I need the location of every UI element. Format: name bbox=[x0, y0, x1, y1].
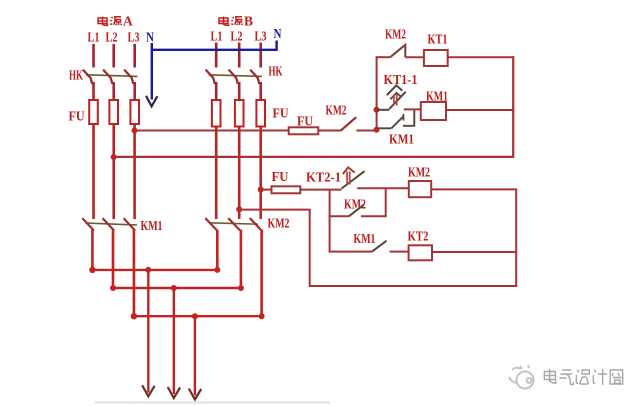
wire phase A L1 down bbox=[92, 124, 95, 219]
contact KT1-1 (delayed) blade bbox=[389, 92, 405, 109]
svg-text:HK: HK bbox=[69, 68, 83, 83]
node junction on B L2 (return feed) bbox=[236, 206, 242, 212]
node junction on A L3 (row1 feed) bbox=[132, 128, 138, 134]
wire right bus (KT1/KM1 branch) bbox=[512, 56, 514, 158]
wire left branch vertical x329 bbox=[329, 190, 331, 252]
wire after fuse row2 bbox=[300, 189, 341, 191]
contact KM1 NC blade bbox=[391, 117, 403, 129]
svg-text:L3: L3 bbox=[255, 30, 267, 45]
wire phase L3 B top bbox=[259, 43, 262, 68]
wire phase L2 B top bbox=[238, 43, 241, 68]
svg-text:KM1: KM1 bbox=[141, 218, 163, 233]
svg-text:KM2: KM2 bbox=[408, 165, 430, 180]
wire KT2 row mid bbox=[390, 251, 409, 253]
wire KT1 row right bbox=[448, 56, 515, 58]
contactor KM1 linkage bbox=[86, 223, 138, 225]
node junction on A L2 (return line) bbox=[111, 154, 117, 160]
switch HK B pole 1 blade bbox=[206, 70, 215, 84]
wire output 2 down bbox=[173, 288, 175, 394]
wire phase A L2 down bbox=[112, 124, 115, 219]
coil KM2 bbox=[409, 181, 431, 197]
svg-text:KT2-1: KT2-1 bbox=[306, 169, 341, 184]
fuse FU control row1 (horizontal) bbox=[289, 127, 319, 134]
contact KM1 NC stop tick bbox=[402, 114, 404, 121]
wire control row1 feed bbox=[135, 130, 289, 132]
switch HK B stubs to fuses bbox=[216, 82, 261, 101]
bottom faint line bbox=[95, 401, 330, 403]
wire KT2 row right bbox=[432, 251, 517, 253]
wire KT2 row feed bbox=[261, 189, 272, 191]
svg-text:KT2: KT2 bbox=[408, 228, 429, 243]
node junction feed bus middle bbox=[374, 107, 380, 113]
wire control return line y157 bbox=[114, 156, 515, 158]
svg-text:L3: L3 bbox=[128, 31, 140, 46]
contact KM2 NO parallel blade bbox=[349, 205, 364, 217]
svg-text:A: A bbox=[123, 14, 133, 29]
fuse FU A2 bbox=[109, 100, 118, 124]
delay arrow symbol KT2-1 bbox=[343, 167, 355, 184]
svg-text:KM2: KM2 bbox=[268, 215, 290, 230]
node rail2 right bbox=[238, 285, 244, 291]
wire after fuse row1 bbox=[318, 130, 340, 132]
svg-text:KM2: KM2 bbox=[326, 103, 347, 118]
wire KT2 row left bbox=[329, 251, 372, 253]
switch HK B pole 3 blade bbox=[250, 70, 259, 84]
svg-text:N: N bbox=[146, 30, 154, 45]
arrow output 2 bbox=[168, 387, 180, 398]
wire KM1 pole1 down bbox=[91, 230, 94, 270]
wire output rail 2 bbox=[113, 287, 241, 289]
node rail2 left bbox=[110, 285, 116, 291]
fuse FU A3 bbox=[130, 100, 139, 124]
switch HK A stubs to fuses bbox=[94, 82, 135, 101]
wire KM2 pole2 down bbox=[240, 230, 243, 289]
node rail2 tap bbox=[171, 285, 177, 291]
arrow output 1 bbox=[142, 385, 154, 396]
neutral bus N horizontal (blue) bbox=[152, 49, 277, 51]
neutral drop N (A, blue) with arrow bbox=[146, 43, 157, 106]
label 电源B bbox=[219, 17, 243, 26]
node junction on B L3 (KT2 feed) bbox=[258, 187, 264, 193]
switch HK B pole 2 blade bbox=[229, 70, 238, 84]
watermark text 电气设计圈 bbox=[544, 369, 622, 385]
contact KM2 NO row1 blade bbox=[341, 117, 357, 131]
wire KM2 pole3 down bbox=[260, 230, 263, 317]
contactor KM2 pole 2 blade bbox=[228, 218, 240, 230]
svg-text:L2: L2 bbox=[231, 30, 243, 45]
coil KT2 bbox=[409, 245, 432, 260]
vertical feed bus x377 bbox=[376, 57, 378, 130]
switch HK A pole 3 blade bbox=[124, 70, 133, 84]
node rail3 right bbox=[259, 313, 265, 319]
wire KM1 row left bbox=[377, 109, 390, 111]
neutral riser N (B, blue) bbox=[275, 41, 277, 51]
svg-text:KM1: KM1 bbox=[389, 131, 414, 146]
fuse FU B1 bbox=[212, 100, 221, 127]
fuse FU control row2 (horizontal) bbox=[272, 186, 301, 193]
wire phase L1 A top bbox=[92, 44, 95, 68]
wire KT2-1 to KM2 coil bbox=[357, 187, 409, 189]
svg-text:L2: L2 bbox=[106, 31, 118, 46]
wire KT1 row mid bbox=[405, 56, 424, 58]
contactor KM1 pole 1 blade bbox=[82, 218, 94, 230]
svg-text:KT1-1: KT1-1 bbox=[384, 72, 418, 87]
fuse FU A1 bbox=[89, 100, 98, 124]
svg-text:KM2: KM2 bbox=[385, 27, 406, 42]
coil KM1 bbox=[421, 102, 446, 120]
label 电源A bbox=[98, 17, 122, 26]
contact KM1 (KT2 row) blade bbox=[372, 241, 387, 252]
wire KM1 row right bbox=[446, 109, 514, 111]
node rail1 tap bbox=[145, 267, 151, 273]
wire output 3 down bbox=[194, 316, 196, 395]
node rail3 tap bbox=[192, 313, 198, 319]
wire KT1 row left bbox=[376, 56, 391, 58]
svg-text:HK: HK bbox=[269, 64, 283, 79]
wire phase L3 A top bbox=[133, 44, 136, 68]
wire output 1 down bbox=[147, 270, 149, 393]
wire return feed y209 bbox=[239, 209, 311, 211]
svg-text:N: N bbox=[274, 26, 282, 41]
node rail1 left bbox=[89, 267, 95, 273]
wire phase B L1 down bbox=[215, 127, 218, 220]
wire KM2 parallel row right bbox=[361, 215, 387, 217]
svg-text:L1: L1 bbox=[88, 31, 100, 46]
wire KM1 pole3 down bbox=[133, 230, 136, 316]
wire output rail 1 bbox=[92, 269, 217, 271]
wire phase L2 A top bbox=[112, 44, 115, 68]
svg-text:KM2: KM2 bbox=[344, 196, 366, 211]
wire left return vertical x310 bbox=[309, 210, 311, 287]
svg-text:FU: FU bbox=[69, 109, 85, 124]
contact KM2 NO (KT1 branch) blade bbox=[390, 45, 405, 57]
coil KT1 bbox=[424, 50, 448, 66]
svg-text:FU: FU bbox=[297, 113, 313, 128]
svg-text:B: B bbox=[244, 14, 253, 29]
disconnect switch HK B linkage bbox=[209, 75, 263, 77]
node rail3 left bbox=[131, 313, 137, 319]
wire right bus (KT2/KM2 branch) bbox=[515, 189, 517, 287]
switch HK A pole 2 blade bbox=[103, 70, 112, 84]
node rail1 right bbox=[214, 267, 220, 273]
wire KM2 coil right bbox=[431, 188, 517, 190]
wire phase A L3 down bbox=[133, 124, 136, 219]
wire phase L1 B top bbox=[215, 43, 218, 68]
svg-text:L1: L1 bbox=[211, 30, 223, 45]
contactor KM1 pole 2 blade bbox=[103, 218, 115, 230]
fuse FU B2 bbox=[235, 100, 244, 127]
wire phase B L3 down bbox=[259, 127, 262, 220]
contact KT2-1 (delayed) blade bbox=[342, 171, 365, 188]
wire KM2 parallel row left bbox=[329, 215, 349, 217]
svg-text:FU: FU bbox=[272, 169, 289, 184]
contactor KM1 pole 3 blade bbox=[124, 218, 136, 230]
wire KM1 NC right jog bbox=[403, 110, 414, 126]
wire output rail 3 bbox=[134, 315, 262, 317]
wire row1 to node bbox=[356, 130, 377, 132]
svg-text:KT1: KT1 bbox=[428, 32, 448, 47]
disconnect switch HK A linkage bbox=[86, 75, 138, 77]
switch HK A pole 1 blade bbox=[83, 70, 92, 84]
wire KM1 pole2 down bbox=[112, 230, 115, 288]
wire parallel branch riser x386 bbox=[385, 188, 387, 216]
node junction feed bus bottom bbox=[374, 127, 380, 133]
contactor KM2 pole 1 blade bbox=[205, 218, 217, 230]
delay arrow symbol KT1-1 bbox=[387, 85, 403, 105]
fuse FU B3 bbox=[256, 100, 265, 127]
wire KM2 pole1 down bbox=[216, 230, 219, 270]
arrow output 3 bbox=[189, 389, 201, 400]
svg-text:FU: FU bbox=[273, 106, 289, 121]
contactor KM2 pole 3 blade bbox=[250, 218, 261, 230]
wire phase B L2 down bbox=[238, 127, 241, 220]
watermark logo bbox=[509, 365, 534, 389]
wire bottom rail (KT2 branch) bbox=[310, 285, 518, 287]
svg-text:KM1: KM1 bbox=[354, 231, 376, 246]
contactor KM2 linkage bbox=[209, 223, 258, 224]
wire KM1 coil lead bbox=[404, 108, 421, 110]
wire KM1 NC row left bbox=[377, 127, 392, 129]
